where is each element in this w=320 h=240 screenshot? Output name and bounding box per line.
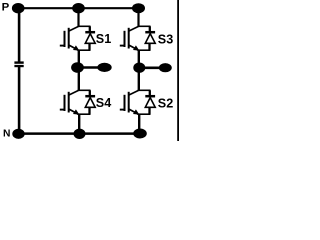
node top of right leg	[132, 3, 145, 13]
wire left leg verticals	[77, 8, 80, 133]
svg-text:S4: S4	[96, 96, 111, 110]
node midpoint left leg	[71, 62, 84, 73]
node bottom of left leg	[74, 129, 86, 139]
wire right leg verticals	[137, 8, 140, 133]
IGBT S1 with antiparallel diode	[60, 26, 95, 50]
IGBT S2 with antiparallel diode	[120, 90, 155, 114]
node P	[12, 3, 25, 13]
node top of left leg	[72, 3, 85, 13]
wire bottom rail N to right leg	[19, 132, 141, 135]
wire right border bus	[177, 0, 179, 141]
capacitor C1	[14, 61, 23, 67]
wire output stub right	[141, 67, 161, 70]
node bottom of right leg	[133, 129, 147, 139]
IGBT S3 with antiparallel diode	[120, 26, 155, 50]
svg-text:N: N	[3, 129, 10, 140]
node N	[12, 129, 24, 139]
wire left bus vertical	[18, 8, 21, 133]
svg-text:S1: S1	[96, 32, 111, 46]
wire output stub left	[80, 66, 100, 68]
node midpoint right leg	[133, 62, 145, 72]
svg-text:S3: S3	[158, 33, 173, 47]
svg-text:S2: S2	[158, 97, 173, 111]
IGBT S4 with antiparallel diode	[60, 90, 95, 114]
node output terminal left	[97, 63, 111, 72]
wire top rail P to right leg	[16, 7, 140, 9]
svg-text:P: P	[2, 2, 10, 14]
node output terminal right	[159, 63, 172, 72]
